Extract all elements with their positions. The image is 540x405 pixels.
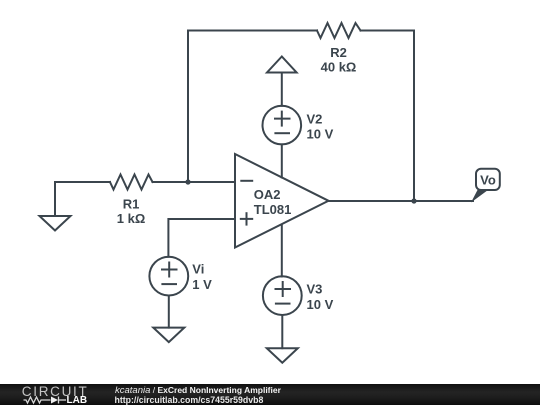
svg-text:1 V: 1 V	[192, 277, 212, 292]
svg-text:Vi: Vi	[192, 261, 204, 276]
svg-text:40 kΩ: 40 kΩ	[321, 60, 357, 75]
svg-text:V2: V2	[307, 112, 323, 127]
svg-text:TL081: TL081	[254, 202, 292, 217]
svg-text:V3: V3	[307, 281, 323, 296]
svg-text:Vo: Vo	[480, 173, 496, 188]
svg-text:10 V: 10 V	[307, 297, 334, 312]
svg-text:R1: R1	[123, 197, 140, 212]
svg-text:R2: R2	[330, 45, 347, 60]
svg-text:1 kΩ: 1 kΩ	[117, 211, 146, 226]
svg-text:10 V: 10 V	[307, 127, 334, 142]
svg-text:OA2: OA2	[254, 187, 281, 202]
